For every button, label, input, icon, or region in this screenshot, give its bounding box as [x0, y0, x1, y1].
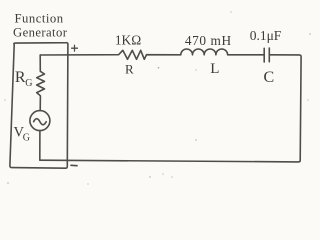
svg-text:R: R — [125, 62, 134, 77]
svg-text:R: R — [15, 69, 26, 86]
svg-text:C: C — [263, 69, 274, 86]
svg-text:G: G — [25, 78, 32, 89]
svg-text:L: L — [210, 61, 219, 77]
svg-text:Generator: Generator — [13, 25, 68, 39]
svg-text:G: G — [23, 133, 30, 144]
svg-text:1KΩ: 1KΩ — [115, 32, 141, 47]
svg-text:Function: Function — [15, 11, 64, 25]
svg-text:0.1μF: 0.1μF — [250, 28, 282, 43]
svg-text:470 mH: 470 mH — [185, 33, 232, 48]
